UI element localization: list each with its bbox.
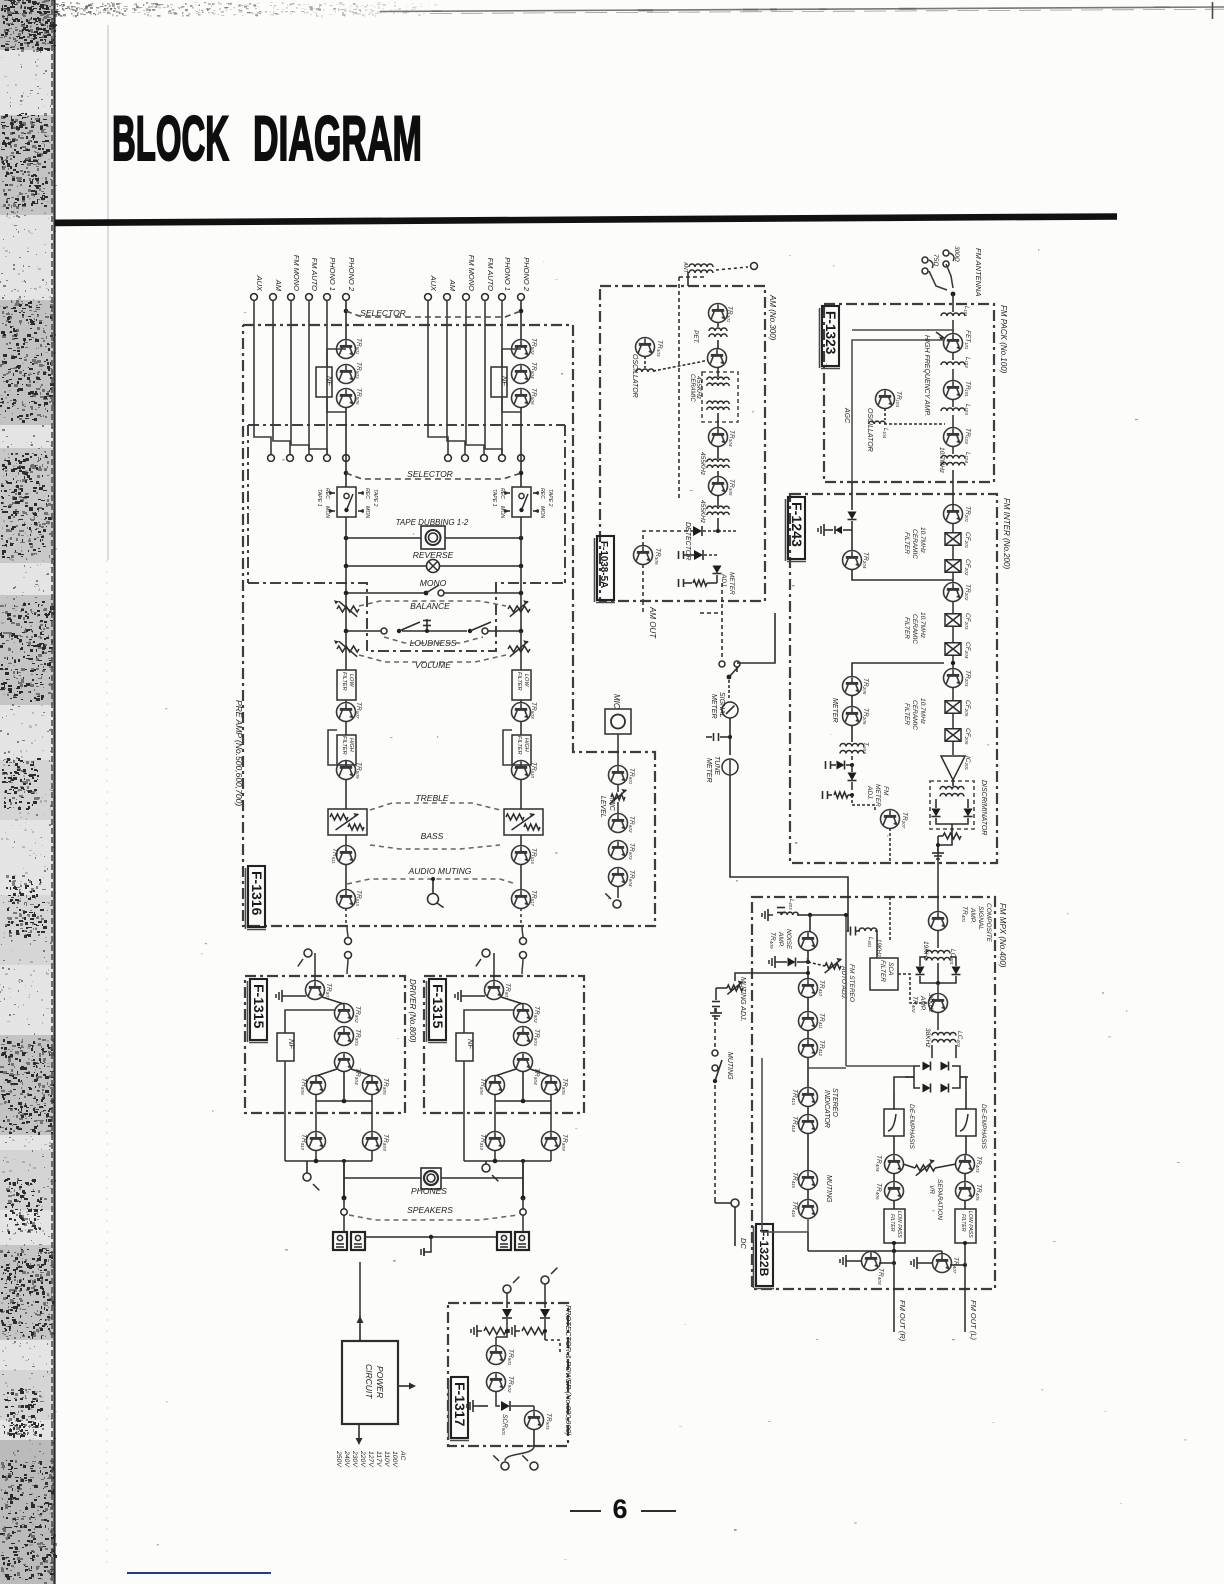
svg-text:FILTER: FILTER: [903, 703, 910, 725]
svg-text:ADJ.: ADJ.: [720, 573, 727, 588]
transistor TR306: [634, 546, 653, 565]
transistor TR207: [881, 810, 900, 829]
svg-text:LOW PASS: LOW PASS: [896, 1211, 902, 1238]
transistor TR603: [609, 841, 628, 860]
svg-text:TR₆₀₃: TR₆₀₃: [628, 843, 635, 860]
transistor TR802: [514, 1004, 533, 1023]
driver block F-1315 outline: [424, 976, 584, 1113]
transistor TR413 stereo ind: [807, 1057, 809, 1088]
de-emphasis left: [884, 1109, 904, 1136]
ceramic filter CF206: [952, 714, 954, 728]
FM oscillator TR103: [876, 390, 895, 409]
svg-text:CF₂₀₂: CF₂₀₂: [964, 559, 971, 576]
svg-text:TR₁₀₃: TR₁₀₃: [895, 391, 902, 407]
reverse switch: [427, 560, 440, 573]
svg-text:220V: 220V: [359, 1450, 366, 1468]
svg-text:MON: MON: [499, 506, 505, 518]
label F-1315: [429, 979, 446, 1040]
svg-text:FM OUT (L): FM OUT (L): [969, 1300, 978, 1340]
transistor TR806: [486, 1076, 505, 1095]
speakers dashed link: [349, 1215, 518, 1220]
svg-text:STEREO: STEREO: [831, 1088, 838, 1117]
svg-text:REC: REC: [499, 488, 505, 499]
svg-text:PHONO 2: PHONO 2: [522, 257, 531, 292]
svg-text:100V: 100V: [391, 1451, 398, 1468]
svg-text:10.7MHz: 10.7MHz: [938, 447, 945, 474]
transistor TR414: [807, 1106, 809, 1115]
FM MPX block outline: [752, 897, 995, 1289]
svg-text:FM MONO: FM MONO: [292, 255, 301, 291]
transistor TR810 output: [486, 1132, 505, 1151]
svg-text:TR₅₁₅: TR₅₁₅: [530, 848, 537, 864]
svg-text:PHONO 1: PHONO 1: [503, 257, 512, 291]
paper specks: [413, 533, 414, 535]
svg-text:TR₈₀₅: TR₈₀₅: [561, 1078, 568, 1095]
svg-text:MUTING: MUTING: [726, 1052, 733, 1080]
svg-text:FM MPX (No.400): FM MPX (No.400): [998, 903, 1007, 968]
transistor TR901: [495, 1337, 497, 1346]
transistor TR201: [944, 505, 963, 524]
tune meter: [722, 759, 738, 775]
svg-text:455KHz: 455KHz: [695, 376, 702, 400]
svg-text:CERAMIC: CERAMIC: [911, 614, 918, 644]
svg-text:FILTER: FILTER: [889, 1214, 895, 1232]
phones jack: [421, 1168, 441, 1189]
FM INTER AGC diodes: [851, 482, 853, 510]
transistor TR202: [952, 573, 954, 583]
svg-text:TR₆₀₄: TR₆₀₄: [628, 870, 635, 887]
svg-text:MIC: MIC: [612, 694, 621, 709]
protector resistor 1: [484, 1328, 506, 1335]
svg-text:FILTER: FILTER: [879, 960, 886, 982]
transistor TR808 output: [542, 1132, 561, 1151]
FM IF block outline: [790, 494, 997, 863]
mono switch: [424, 591, 429, 596]
meter amp wire: [852, 663, 944, 677]
transistor TR504L: [345, 761, 347, 765]
bass dashed: [370, 845, 500, 849]
svg-text:TR₁₀₁: TR₁₀₁: [964, 381, 971, 397]
transistor TR416: [807, 1189, 809, 1200]
svg-text:CERAMIC: CERAMIC: [689, 374, 695, 402]
svg-text:LC₄₀₂: LC₄₀₂: [956, 1031, 963, 1048]
selector dashed link top: [346, 311, 521, 317]
bias terminal R left: [303, 1173, 311, 1181]
svg-text:TR₄₀₉: TR₄₀₉: [769, 932, 776, 949]
svg-text:METER: METER: [874, 784, 881, 807]
mic jack: [605, 709, 631, 734]
AM AGC line: [678, 277, 680, 500]
svg-text:METER: METER: [710, 694, 717, 719]
wire mic: [617, 734, 619, 766]
transistor TR401 composite: [929, 912, 948, 931]
AM bar antenna: [689, 264, 713, 267]
NF wiring right: [502, 349, 521, 368]
coil L403: [777, 907, 785, 909]
svg-text:AM: AM: [274, 279, 283, 292]
IFT 10.7MHz L104: [952, 446, 954, 454]
svg-text:F-1323: F-1323: [823, 311, 838, 355]
protector block F-1317 outline: [448, 1303, 568, 1446]
svg-text:FILTER: FILTER: [341, 736, 347, 755]
bottom blue line: [127, 1572, 271, 1574]
NF wiring left: [327, 349, 346, 368]
transistor TR305: [709, 477, 728, 496]
volume pot right: [508, 646, 530, 652]
svg-text:DE-EMPHASIS: DE-EMPHASIS: [908, 1104, 915, 1149]
svg-text:REVERSE: REVERSE: [413, 550, 454, 560]
svg-text:455KHz: 455KHz: [699, 452, 706, 476]
svg-text:ANT: ANT: [682, 261, 688, 274]
volume dashed: [359, 655, 506, 662]
audio muting dashed: [347, 879, 516, 884]
svg-text:10.7MHz: 10.7MHz: [919, 698, 926, 725]
driver mid wiring: [315, 1094, 317, 1131]
svg-text:TR₄₀₆: TR₄₀₆: [875, 1183, 882, 1200]
power arrow down: [358, 1424, 360, 1440]
svg-text:TAPE 1: TAPE 1: [491, 489, 497, 507]
svg-text:TR₈₀₆: TR₈₀₆: [479, 1078, 486, 1095]
svg-text:AC: AC: [399, 1450, 406, 1461]
transistor TR503: [337, 389, 356, 408]
svg-text:38KHz: 38KHz: [927, 993, 934, 1013]
svg-text:POWER: POWER: [375, 1366, 385, 1398]
transistor TR504R: [512, 761, 531, 780]
svg-text:L₄₀₁: L₄₀₁: [867, 937, 873, 947]
svg-text:L₁₀₃: L₁₀₃: [964, 404, 971, 415]
svg-text:BLOCK: BLOCK: [112, 104, 229, 174]
balance pot left: [337, 606, 359, 612]
svg-text:F-1315: F-1315: [251, 984, 267, 1029]
svg-text:ADJ.: ADJ.: [866, 785, 873, 800]
svg-text:AM: AM: [448, 279, 457, 292]
svg-text:TR₈₁₀: TR₈₁₀: [479, 1134, 486, 1150]
svg-text:TR₈₀₈: TR₈₀₈: [561, 1134, 568, 1151]
svg-text:CERAMIC: CERAMIC: [911, 529, 918, 559]
svg-text:SCA: SCA: [887, 962, 894, 975]
svg-text:HIGH FREQUENCY AMP.: HIGH FREQUENCY AMP.: [923, 335, 930, 416]
AM ceramic filter 455kHz: [702, 372, 738, 422]
transistor TR403r: [512, 389, 531, 408]
svg-text:AM OUT: AM OUT: [648, 606, 657, 639]
AM OUT wire: [642, 601, 644, 614]
svg-text:FM AUTO: FM AUTO: [310, 258, 319, 291]
transistor TR206: [851, 695, 853, 707]
svg-text:230V: 230V: [351, 1450, 358, 1468]
transistor TR402r: [512, 365, 531, 384]
wire phones: [344, 1177, 421, 1179]
svg-text:F-1315: F-1315: [430, 984, 446, 1029]
svg-text:TR₄₁₁: TR₄₁₁: [818, 1013, 825, 1028]
protector terminal R: [503, 1285, 511, 1293]
FM front block outline: [824, 304, 994, 482]
wire phono2 left: [345, 301, 347, 341]
AM OUT wire2: [642, 564, 644, 600]
transistor TR401r: [512, 340, 531, 359]
jumper preamp-driver right: [522, 926, 523, 937]
svg-text:FILTER: FILTER: [960, 1214, 966, 1232]
svg-text:TR₅₁₃: TR₅₁₃: [355, 890, 362, 906]
svg-text:TR₄₁₃: TR₄₁₃: [791, 1089, 798, 1105]
svg-text:TR₅₀₄: TR₅₀₄: [530, 362, 537, 379]
label F-1317: [451, 1377, 468, 1438]
signal meter cap: [729, 718, 731, 755]
svg-text:INDICATOR: INDICATOR: [823, 1090, 830, 1128]
input wires to selector row: [254, 301, 271, 455]
svg-text:TR₈₀₃: TR₈₀₃: [533, 1029, 540, 1046]
wires preamp out: [345, 908, 347, 926]
svg-text:FM PACK (No.100): FM PACK (No.100): [999, 305, 1008, 374]
tape monitor switch right: [512, 487, 531, 517]
ceramic filter CF204: [952, 627, 954, 642]
coil L102: [952, 352, 954, 360]
svg-text:FM STEREO: FM STEREO: [848, 964, 855, 1002]
mic level pot: [617, 784, 619, 792]
svg-text:CF₂₀₃: CF₂₀₃: [964, 613, 971, 630]
svg-text:METER: METER: [705, 758, 712, 783]
svg-text:FM MONO: FM MONO: [467, 255, 476, 291]
meter switch: [719, 661, 725, 667]
coil L101: [941, 313, 965, 316]
transistor TR805: [542, 1076, 561, 1095]
svg-text:L₁₀₄: L₁₀₄: [964, 452, 971, 463]
mic out terminal: [617, 886, 619, 898]
svg-text:SEPARATION: SEPARATION: [936, 1179, 943, 1220]
svg-text:10.7MHz: 10.7MHz: [919, 612, 926, 639]
discriminator box: [930, 781, 974, 829]
low pass filter left: [884, 1209, 905, 1243]
FM OUT L: [964, 1243, 966, 1332]
svg-text:F-1317: F-1317: [452, 1382, 468, 1427]
svg-text:FILTER: FILTER: [903, 617, 910, 639]
svg-text:FILTER: FILTER: [516, 672, 522, 691]
svg-text:BALANCE: BALANCE: [410, 601, 450, 611]
svg-text:OSCILLATOR: OSCILLATOR: [866, 408, 873, 452]
chain link FM: [952, 470, 954, 506]
svg-text:TR₄₁₂: TR₄₁₂: [818, 1040, 825, 1056]
svg-text:TR₄₀₃: TR₄₀₃: [975, 1156, 982, 1173]
MPX diode bridge: [931, 1045, 933, 1058]
svg-text:F-1316: F-1316: [249, 871, 265, 916]
top page edge noise: [113, 10, 115, 12]
selector dashed link 2: [346, 473, 521, 479]
AM IFT 455kHz 1: [707, 459, 729, 462]
transistor TR407: [933, 1254, 952, 1273]
svg-text:240V: 240V: [343, 1450, 350, 1468]
svg-text:TR₅₀₅: TR₅₀₅: [355, 388, 362, 405]
svg-text:TAPE 1: TAPE 1: [316, 489, 322, 507]
transistor TR801: [485, 981, 504, 1000]
svg-text:TR₃₀₅: TR₃₀₅: [728, 479, 735, 496]
transistor TR602: [617, 802, 619, 814]
LC401 diodes: [920, 957, 926, 966]
svg-text:TR₂₀₆: TR₂₀₆: [862, 708, 869, 725]
noise amp diode: [807, 950, 809, 962]
protector diode 1: [502, 1309, 512, 1318]
power arrow right: [398, 1385, 412, 1387]
svg-text:MON: MON: [539, 506, 545, 518]
protector diode 2: [540, 1309, 550, 1318]
transistor TR502R tone: [520, 700, 522, 703]
svg-text:TAPE 2: TAPE 2: [547, 489, 553, 507]
svg-text:TR₄₀₂: TR₄₀₂: [911, 996, 918, 1013]
muting switch: [712, 1050, 718, 1056]
transistor TR501: [337, 340, 356, 359]
svg-text:TR₈₀₆: TR₈₀₆: [300, 1078, 307, 1095]
volume pot left: [337, 646, 359, 652]
svg-text:TR₂₀₂: TR₂₀₂: [964, 584, 971, 601]
svg-text:LOW PASS: LOW PASS: [967, 1211, 973, 1238]
coil LC401: [937, 930, 939, 948]
svg-text:COMPOSITE: COMPOSITE: [985, 903, 992, 943]
svg-text:TR₅₀₁: TR₅₀₁: [355, 338, 362, 354]
svg-text:L₁₀₂: L₁₀₂: [964, 357, 971, 368]
wire right chain down: [520, 407, 522, 487]
svg-text:TR₉₀₃: TR₉₀₃: [545, 1413, 552, 1430]
svg-text:TR₄₀₈: TR₄₀₈: [877, 1268, 884, 1285]
transistor TR409 noise amp: [799, 932, 818, 951]
svg-text:PET.: PET.: [692, 330, 699, 344]
page left binding noise band: [0, 0, 58, 1584]
NF box right input amp: [491, 367, 507, 397]
speaker terminals left: [333, 1232, 347, 1250]
svg-text:TR₈₀₁: TR₈₀₁: [325, 983, 332, 999]
ceramic filter CF203: [952, 601, 954, 613]
svg-text:METER: METER: [728, 572, 735, 595]
svg-text:FM INTER (No.200): FM INTER (No.200): [1002, 498, 1011, 569]
svg-text:110V: 110V: [383, 1451, 390, 1468]
bias terminal P right: [482, 1164, 490, 1172]
svg-text:TR₅₀₇: TR₅₀₇: [355, 702, 362, 719]
protector outputs: [533, 1429, 535, 1446]
svg-text:FM AUTO: FM AUTO: [486, 258, 495, 291]
wire reverse: [346, 565, 427, 567]
svg-text:MIC: MIC: [608, 798, 615, 812]
transistor TR801: [306, 981, 325, 1000]
svg-text:TR₂₀₇: TR₂₀₇: [901, 812, 908, 829]
protector terminal P: [541, 1276, 549, 1284]
svg-text:TR₄₁₄: TR₄₁₄: [791, 1116, 798, 1132]
svg-text:CERAMIC: CERAMIC: [911, 700, 918, 730]
FM meter adj: [822, 791, 824, 799]
transistor TR804: [514, 1053, 533, 1072]
low pass filter right: [955, 1209, 976, 1243]
label F-1038-5A: [597, 536, 614, 600]
svg-text:TR₈₀₈: TR₈₀₈: [382, 1134, 389, 1151]
svg-text:TR₅₁₀: TR₅₁₀: [530, 762, 537, 778]
balance pot right: [508, 606, 530, 612]
svg-text:PHONES: PHONES: [411, 1186, 447, 1196]
transistor TR101: [952, 369, 954, 381]
svg-text:10.7MHz: 10.7MHz: [919, 527, 926, 554]
svg-text:L₁₀₁: L₁₀₁: [963, 306, 970, 316]
NF box driver: [277, 1033, 294, 1061]
svg-text:TR₁₀₂: TR₁₀₂: [964, 428, 971, 444]
svg-text:19KHz: 19KHz: [875, 939, 881, 957]
svg-text:CF₂₀₁: CF₂₀₁: [964, 532, 971, 548]
svg-text:DISCRIMINATOR: DISCRIMINATOR: [980, 780, 987, 835]
svg-text:TUNE: TUNE: [713, 756, 720, 775]
svg-text:127V: 127V: [367, 1451, 374, 1468]
svg-text:LOW: LOW: [523, 674, 529, 687]
AM block outline: [600, 286, 765, 601]
transistor TR301: [709, 304, 728, 323]
loudness switch row: [381, 628, 387, 634]
coil LC402: [937, 1012, 939, 1030]
transistor TR205: [843, 677, 862, 696]
speaker common wire: [365, 1236, 497, 1238]
svg-text:MONO: MONO: [420, 578, 447, 588]
svg-text:TR₅₀₉: TR₅₀₉: [355, 762, 362, 779]
svg-text:TR₄₀₁: TR₄₀₁: [961, 906, 968, 922]
svg-text:TR₂₀₄: TR₂₀₄: [862, 552, 869, 569]
svg-text:TR₆₀₁: TR₆₀₁: [628, 768, 635, 784]
svg-text:6: 6: [612, 1494, 627, 1524]
svg-text:F-1038-5A: F-1038-5A: [598, 541, 609, 588]
svg-text:TR₅₀₃: TR₅₀₃: [355, 362, 362, 379]
separation VR: [915, 1165, 935, 1171]
muting output wire: [807, 1232, 809, 1251]
tone control left: [328, 809, 367, 835]
svg-text:LOW: LOW: [348, 674, 354, 687]
meter diodes: [851, 756, 853, 760]
svg-text:TR₈₀₂: TR₈₀₂: [533, 1006, 540, 1023]
svg-text:TR₃₀₄: TR₃₀₄: [728, 430, 735, 447]
svg-text:TR₄₁₅: TR₄₁₅: [791, 1172, 798, 1188]
wire phono2 right: [520, 301, 522, 341]
transistor TR902: [487, 1373, 506, 1392]
svg-text:METER: METER: [831, 698, 838, 723]
SCR901: [496, 1391, 500, 1406]
svg-text:MON: MON: [364, 506, 370, 518]
high filter box left: [337, 735, 356, 765]
wire tape dubbing: [346, 537, 421, 539]
loudness dashed: [384, 637, 483, 643]
input terminals and labels: [251, 294, 258, 301]
label F-1243: [788, 497, 805, 559]
svg-text:SCR₉₀₁: SCR₉₀₁: [501, 1414, 508, 1435]
selector row2 terminals: [268, 455, 275, 462]
FM OUT R: [893, 1243, 895, 1332]
NF box driver: [456, 1033, 473, 1061]
SCA filter box: [870, 958, 898, 990]
svg-text:CF₂₀₆: CF₂₀₆: [964, 728, 971, 745]
treble dashed: [370, 803, 500, 810]
tape dubbing jack: [421, 526, 445, 549]
svg-text:TR₈₀₅: TR₈₀₅: [382, 1078, 389, 1095]
svg-text:PHONO 2: PHONO 2: [347, 257, 356, 292]
transistor TR803: [335, 1027, 354, 1046]
transistor TR402 38khz: [937, 983, 939, 994]
svg-text:TR₈₀₁: TR₈₀₁: [504, 983, 511, 999]
transistor TR408: [862, 1252, 881, 1271]
tape monitor switch left: [337, 487, 356, 517]
transistor TR302: [708, 349, 727, 368]
svg-text:F-1243: F-1243: [788, 502, 804, 547]
ceramic filter CF205: [952, 687, 954, 700]
transistor TR506L: [345, 864, 347, 890]
svg-text:250V: 250V: [335, 1450, 342, 1468]
bridge to deemph wires: [894, 1077, 914, 1092]
balance dashed: [359, 601, 506, 606]
signal meter: [722, 702, 738, 718]
svg-text:BASS: BASS: [421, 831, 444, 841]
fm stereo auto adj pot: [825, 963, 841, 969]
transistor TR406: [893, 1173, 895, 1182]
AM IFT 455kHz 2: [707, 506, 729, 509]
de-emphasis right: [956, 1109, 976, 1136]
transistor TR412: [807, 1030, 809, 1039]
